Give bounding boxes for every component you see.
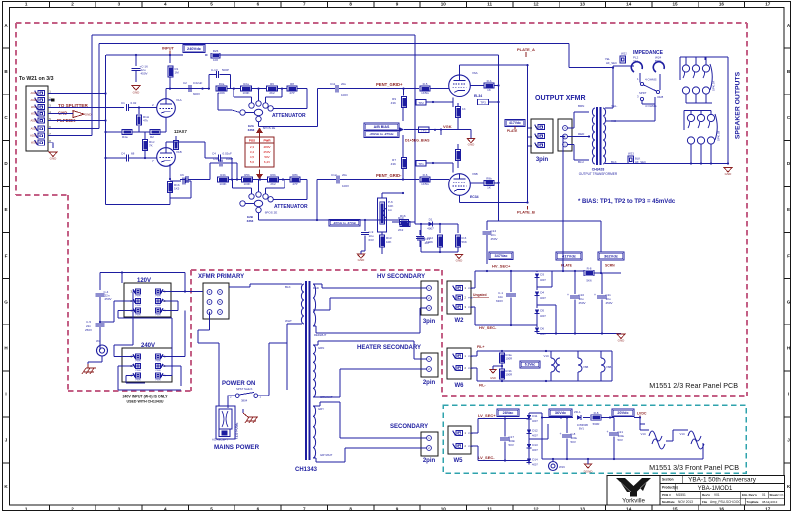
- wire 3pin to transformer center: [568, 136, 590, 138]
- svg-text:C1: C1: [121, 101, 125, 105]
- wire rail C screen drop: [322, 54, 499, 56]
- svg-text:TmpDate: TmpDate: [747, 500, 759, 504]
- svg-text:SPDT: SPDT: [639, 91, 647, 95]
- connector W6 rear pin 1: [456, 353, 463, 358]
- svg-text:250V: 250V: [263, 150, 270, 154]
- transformer T2 primary winding: [592, 108, 595, 164]
- svg-text:* BIAS: TP1, TP2 to TP3 = 45mV: * BIAS: TP1, TP2 to TP3 = 45mVdc: [578, 199, 676, 205]
- svg-text:CH3428: CH3428: [592, 168, 605, 172]
- svg-text:GRY: GRY: [318, 407, 324, 411]
- wire front bottom rail: [542, 458, 703, 460]
- wire HV REDWHT to pin3: [313, 325, 316, 327]
- svg-text:7: 7: [303, 506, 306, 511]
- svg-text:D14: D14: [532, 458, 538, 462]
- selector 120V pin R4: [155, 308, 160, 313]
- wire power switch to WHT: [258, 395, 270, 397]
- svg-text:4007: 4007: [540, 296, 546, 300]
- resistor chain row1 R6: [267, 86, 278, 91]
- IEC inlet fuse module: [216, 406, 235, 439]
- svg-text:ATTENUATOR: ATTENUATOR: [274, 204, 308, 210]
- svg-text:450V: 450V: [606, 301, 613, 305]
- connector W21 pin 4: [38, 111, 45, 116]
- ground speaker bus: [724, 168, 732, 173]
- resistor R5 grid stopper upper: [420, 86, 430, 91]
- svg-text:6POS 2E: 6POS 2E: [265, 211, 278, 215]
- svg-text:GND: GND: [50, 157, 58, 161]
- svg-text:0.02uF: 0.02uF: [193, 81, 203, 85]
- svg-text:6: 6: [257, 506, 260, 511]
- wire VGK node: [404, 129, 458, 131]
- svg-text:LVDC: LVDC: [637, 412, 647, 416]
- svg-text:R3a: R3a: [219, 82, 225, 86]
- connector W21 pin 1: [38, 90, 45, 95]
- svg-text:450V: 450V: [579, 301, 586, 305]
- wire FIL+ rail: [471, 355, 477, 357]
- svg-text:PENT_GRID+: PENT_GRID+: [376, 82, 403, 87]
- svg-text:A02G: A02G: [30, 134, 37, 138]
- svg-text:BLK: BLK: [285, 285, 291, 289]
- svg-text:SPST Switch: SPST Switch: [236, 387, 253, 391]
- connector mating pin 3: [563, 126, 568, 131]
- wire jack to switch: [639, 73, 641, 83]
- svg-text:2: 2: [71, 506, 74, 511]
- svg-text:480V: 480V: [263, 145, 270, 149]
- transformer T2 output core: [596, 107, 598, 165]
- connector W2 rear pin 3: [456, 304, 463, 309]
- speaker jacks J1-J3 row2: [682, 87, 689, 94]
- svg-text:EIA. Rev'n: EIA. Rev'n: [742, 493, 757, 497]
- svg-text:100V: 100V: [341, 93, 348, 97]
- svg-text:PWR: PWR: [155, 305, 161, 307]
- diode D3 rectifier: [536, 271, 538, 272]
- svg-text:W4: W4: [96, 339, 101, 343]
- svg-text:R-8: R-8: [587, 266, 592, 270]
- svg-text:PWR: PWR: [155, 370, 161, 372]
- connector 3pin output pin 2: [538, 133, 545, 138]
- transformer T1 LV winding: [313, 406, 316, 458]
- diode D4 rectifier: [536, 278, 538, 290]
- svg-text:A02F: A02F: [31, 127, 38, 131]
- svg-text:250V: 250V: [85, 328, 92, 332]
- svg-text:5: 5: [210, 2, 213, 7]
- svg-text:HV_SEC+: HV_SEC+: [492, 264, 511, 269]
- wire PLATE_B to BLU: [582, 161, 584, 186]
- diode D5 rectifier: [536, 296, 538, 308]
- svg-text:GND: GND: [725, 172, 733, 176]
- svg-text:C-13: C-13: [211, 68, 218, 72]
- connector W21 pin 5: [38, 118, 45, 123]
- svg-text:63V: 63V: [369, 238, 374, 242]
- svg-text:PWR: PWR: [264, 139, 272, 143]
- svg-text:10K: 10K: [386, 240, 391, 244]
- svg-text:GND: GND: [358, 258, 366, 262]
- svg-text:100: 100: [213, 58, 218, 62]
- svg-text:3: 3: [118, 2, 121, 7]
- tube V2A EL34 upper: [449, 75, 471, 97]
- wire VIO to switch: [605, 120, 619, 122]
- svg-text:1N5363B: 1N5363B: [577, 423, 588, 427]
- svg-text:560R: 560R: [593, 422, 600, 426]
- svg-text:100R: 100R: [506, 373, 513, 377]
- svg-text:V6A: V6A: [472, 71, 478, 75]
- svg-text:6.3Vac: 6.3Vac: [525, 363, 536, 367]
- capacitor C10 reservoir: [574, 271, 576, 294]
- wire LV to pins: [313, 405, 320, 407]
- svg-text:R-5: R-5: [423, 82, 428, 86]
- svg-text:HEATER SECONDARY: HEATER SECONDARY: [357, 345, 421, 351]
- svg-text:Yorkville: Yorkville: [622, 498, 645, 505]
- test point bubble on screen rail: [478, 99, 489, 105]
- wire rectifier mid tap: [537, 286, 552, 288]
- diode D6 rectifier: [536, 314, 538, 326]
- resistor R1b 47k: [138, 108, 140, 115]
- selector 120V pin R5: [155, 298, 160, 303]
- rear panel PCB dashed outline: [441, 270, 443, 396]
- svg-text:BV1: BV1: [579, 427, 584, 431]
- zener ZD-1: [577, 415, 581, 420]
- connector W6 rear pin 2: [456, 365, 463, 370]
- svg-text:100K: 100K: [218, 91, 225, 95]
- svg-text:13: 13: [580, 506, 586, 511]
- connector mating pin 1: [563, 142, 568, 147]
- tube V1A triode half: [157, 99, 176, 118]
- capacitor C2b coupling 0.02uF: [188, 85, 190, 92]
- svg-text:REDWHT: REDWHT: [314, 333, 327, 337]
- wire top bus row1: [679, 57, 681, 64]
- svg-text:W2H: W2H: [31, 141, 37, 145]
- svg-text:PWR: PWR: [135, 296, 141, 298]
- wire V2B cathode to TP1: [452, 163, 454, 173]
- heater V1 filament rear: [551, 358, 555, 372]
- arrow down to attenuator 2: [256, 174, 263, 180]
- value box 6.3Vac: [520, 361, 540, 368]
- svg-text:2 Of 4: 2 Of 4: [777, 493, 786, 497]
- svg-text:PWR: PWR: [155, 361, 161, 363]
- svg-text:2,3: 2,3: [250, 145, 255, 149]
- wire BLK secondary bottom: [605, 163, 628, 165]
- capacitor C-5 mains: [96, 323, 105, 325]
- diode D11 bridge: [527, 415, 532, 419]
- title block frame: [607, 476, 785, 506]
- wire primary WHT: [287, 323, 302, 325]
- svg-text:47P: 47P: [292, 182, 297, 186]
- svg-text:3,4: 3,4: [250, 150, 255, 154]
- wire mains top: [100, 272, 122, 274]
- svg-text:F: F: [787, 253, 790, 258]
- svg-text:Section: Section: [662, 478, 674, 482]
- svg-text:DGND: DGND: [584, 470, 594, 474]
- wire V1B plate output: [165, 142, 167, 148]
- connector W2 rear pin 1: [456, 285, 463, 290]
- svg-text:W16: W16: [559, 465, 565, 469]
- svg-text:TP3: TP3: [480, 101, 486, 105]
- resistor chain row2 R7b: [268, 177, 279, 182]
- ground chassis hatch: [82, 368, 96, 374]
- svg-text:Product(s): Product(s): [662, 486, 678, 490]
- svg-text:D1+5EG_BIAS: D1+5EG_BIAS: [405, 139, 430, 143]
- svg-text:C11: C11: [330, 82, 336, 86]
- svg-text:PWR: PWR: [468, 298, 474, 300]
- svg-text:D11: D11: [532, 414, 538, 418]
- capacitor C7 bridge over chain2: [209, 163, 211, 180]
- wire BLK bottom bus: [634, 163, 729, 165]
- svg-text:600V: 600V: [193, 92, 200, 96]
- svg-text:W6: W6: [455, 383, 465, 389]
- svg-text:2pin: 2pin: [423, 380, 436, 386]
- svg-text:14: 14: [626, 506, 632, 511]
- selector 240V pin R4: [155, 373, 160, 378]
- svg-text:ModDate: ModDate: [662, 500, 675, 504]
- wire mating pin to BRN top: [582, 100, 584, 108]
- wire V2B plate to PLATE_B: [459, 195, 461, 202]
- resistor R below pent grid lower: [402, 158, 407, 169]
- svg-text:YEL.: YEL.: [611, 104, 618, 108]
- resistor R-8 screen dropper: [584, 270, 594, 276]
- svg-text:GRYWHT: GRYWHT: [320, 453, 333, 457]
- svg-text:7: 7: [303, 2, 306, 7]
- svg-text:11: 11: [487, 2, 492, 7]
- svg-text:BRN: BRN: [655, 59, 661, 63]
- svg-text:SECONDARY: SECONDARY: [390, 424, 428, 430]
- svg-text:RED: RED: [313, 286, 319, 290]
- jack W16 front: [549, 462, 558, 471]
- svg-text:3pin: 3pin: [423, 319, 436, 325]
- svg-text:+: +: [567, 293, 569, 297]
- svg-text:16: 16: [719, 2, 725, 7]
- svg-text:28Vac: 28Vac: [503, 411, 514, 415]
- switch SPDT impedance: [640, 82, 643, 85]
- svg-text:V6B: V6B: [472, 172, 478, 176]
- wire V1B cathode: [169, 164, 171, 179]
- jack PL2 YEL: [631, 62, 642, 72]
- svg-text:E: E: [787, 207, 790, 212]
- wire LVDC node down: [634, 417, 640, 419]
- svg-text:1K5G: 1K5G: [421, 91, 429, 95]
- svg-text:J: J: [787, 438, 790, 443]
- wire center tap B+ down: [560, 136, 565, 138]
- svg-text:PLATE_B: PLATE_B: [517, 210, 535, 215]
- wire bias rail from rail A: [415, 223, 449, 225]
- test point TP2: [416, 100, 426, 106]
- svg-text:50V: 50V: [264, 155, 269, 159]
- svg-text:SPK JB: SPK JB: [717, 131, 721, 141]
- svg-text:TP3: TP3: [421, 128, 427, 132]
- svg-text:0.02uF: 0.02uF: [223, 152, 233, 156]
- ground bias filter: [357, 254, 365, 258]
- svg-text:11: 11: [487, 506, 492, 511]
- connector HV 3pin body: [421, 281, 438, 315]
- ground power switch: [245, 417, 258, 423]
- svg-text:YBA-1 50th Anniversary: YBA-1 50th Anniversary: [688, 477, 757, 484]
- svg-text:A/B BIAS: A/B BIAS: [374, 125, 390, 129]
- svg-text:GND: GND: [618, 339, 626, 343]
- svg-text:R9b: R9b: [486, 176, 492, 180]
- Yorkville logo: [616, 478, 651, 497]
- attenuator E2A rotary switch: [249, 103, 254, 108]
- svg-text:AC RECEPT: AC RECEPT: [212, 438, 228, 442]
- svg-text:50V: 50V: [571, 440, 576, 444]
- svg-text:100V: 100V: [342, 184, 349, 188]
- svg-text:VGK: VGK: [443, 124, 452, 129]
- svg-text:12: 12: [533, 2, 539, 7]
- svg-text:PWR: PWR: [155, 315, 161, 317]
- connector W21 pin 6: [38, 126, 45, 131]
- svg-text:50V: 50V: [618, 438, 623, 442]
- svg-text:+: +: [560, 432, 562, 436]
- svg-text:56K: 56K: [462, 240, 467, 244]
- value box 417Vdc mid: [556, 252, 582, 260]
- svg-text:D1: D1: [429, 218, 433, 222]
- wire B+ to 417Vdc: [562, 252, 564, 270]
- svg-text:17: 17: [765, 506, 771, 511]
- wire bridge mid tap: [529, 438, 548, 440]
- svg-text:4: 4: [164, 506, 167, 511]
- selector 240V pin L3: [135, 354, 140, 359]
- svg-text:3804: 3804: [241, 399, 248, 403]
- svg-text:WHT: WHT: [285, 319, 292, 323]
- connector 3pin output pin 3: [538, 124, 545, 129]
- wire LV_SEC- rail: [471, 445, 478, 447]
- svg-text:PLATE: PLATE: [507, 129, 517, 133]
- connector W21 pin 3: [38, 104, 45, 109]
- svg-text:A02B: A02B: [30, 119, 37, 123]
- svg-text:3: 3: [118, 506, 121, 511]
- connector mating 1-2-3 body: [558, 119, 572, 151]
- svg-text:12AX7: 12AX7: [174, 129, 187, 134]
- svg-text:9: 9: [396, 2, 399, 7]
- wire HV_SEC- rail: [471, 306, 475, 308]
- svg-text:3363: 3363: [247, 219, 254, 223]
- svg-text:D3: D3: [540, 273, 544, 277]
- svg-text:W2C: W2C: [31, 105, 37, 109]
- capacitor C6b cathode bypass: [170, 180, 181, 182]
- transformer T1 primary winding: [301, 284, 304, 324]
- svg-text:SPK JA: SPK JA: [712, 81, 716, 91]
- svg-text:20u: 20u: [341, 82, 346, 86]
- svg-text:PWR: PWR: [135, 370, 141, 372]
- svg-text:PWR: PWR: [135, 315, 141, 317]
- capacitor C-1 HV filter: [510, 271, 512, 292]
- capacitor C2 input coupling: [126, 104, 128, 111]
- svg-text:PWR: PWR: [155, 380, 161, 382]
- wire heater to pins: [313, 344, 318, 346]
- wire right bus down: [727, 57, 729, 164]
- wire rail B feedback run to jack: [568, 44, 570, 68]
- connector 3pin output body: [531, 119, 553, 153]
- wire HV_SEC+ rail: [471, 287, 475, 289]
- svg-text:17: 17: [765, 2, 771, 7]
- svg-text:HF_SEC: HF_SEC: [606, 61, 617, 65]
- svg-text:NOV 2013: NOV 2013: [678, 500, 693, 504]
- svg-text:FIL+: FIL+: [477, 345, 485, 349]
- svg-text:POS: POS: [249, 139, 255, 143]
- svg-text:SPEAKER OUTPUTS: SPEAKER OUTPUTS: [735, 71, 742, 139]
- resistor R13 bias divider2: [449, 223, 458, 225]
- svg-text:4007: 4007: [532, 434, 538, 438]
- wire attenuator 2 output long run: [258, 213, 260, 220]
- wire group2 buses: [684, 110, 711, 112]
- transformer T1 heater winding: [313, 345, 316, 397]
- svg-text:4007: 4007: [532, 419, 538, 423]
- diode D1 bias: [428, 222, 432, 227]
- svg-text:HV SECONDARY: HV SECONDARY: [377, 274, 425, 280]
- svg-text:PWR: PWR: [155, 296, 161, 298]
- svg-text:417Vdc: 417Vdc: [509, 121, 521, 125]
- svg-text:2: 2: [71, 2, 74, 7]
- wire screen rail: [600, 221, 602, 252]
- svg-text:FIL-: FIL-: [479, 384, 486, 388]
- capacitor C12 pent grid- coupling: [336, 176, 338, 184]
- svg-text:1M: 1M: [175, 71, 180, 75]
- svg-text:250V: 250V: [105, 297, 112, 301]
- wire switch lower throw: [641, 101, 643, 104]
- svg-text:File: File: [702, 500, 707, 504]
- value box 240Vdc: [183, 45, 205, 53]
- wire chain drops to attenuator 1: [233, 89, 235, 97]
- connector W6 rear body: [447, 348, 471, 379]
- wire HV mid to pin2: [313, 309, 330, 311]
- A/B BIAS value box: [364, 123, 399, 131]
- wire row1 to row2 bus: [685, 98, 687, 103]
- connector W21 pin 2: [38, 97, 45, 102]
- svg-text:20u: 20u: [342, 173, 347, 177]
- attenuator E2B rotary switch: [249, 194, 254, 199]
- arrow up to attenuator 1: [256, 128, 263, 134]
- connector W22 YEL tag: [620, 56, 626, 63]
- svg-text:C2: C2: [183, 81, 187, 85]
- svg-text:1K5: 1K5: [174, 187, 180, 191]
- svg-text:500P: 500P: [222, 68, 229, 72]
- diode D13 bridge: [527, 444, 532, 448]
- svg-text:240V INPUT (W-6) IS ONLY: 240V INPUT (W-6) IS ONLY: [122, 395, 168, 399]
- svg-text:BLU: BLU: [578, 160, 584, 164]
- selector 240V pin L1: [135, 373, 140, 378]
- svg-text:+: +: [594, 293, 596, 297]
- svg-text:M1551 2/3 Rear Panel PCB: M1551 2/3 Rear Panel PCB: [649, 381, 738, 390]
- resistor R6a screen upper: [484, 83, 494, 88]
- wire selector to primary connector: [185, 291, 203, 293]
- svg-text:4 OHMS: 4 OHMS: [645, 104, 657, 108]
- svg-text:R-b: R-b: [487, 79, 492, 83]
- svg-text:8: 8: [349, 506, 352, 511]
- svg-text:4007: 4007: [540, 314, 546, 318]
- value box -22Vdc to -27Vdc: [329, 220, 360, 227]
- svg-text:PWR: PWR: [135, 305, 141, 307]
- resistor R6b screen lower: [484, 180, 494, 185]
- selector 120V pin L1: [135, 308, 140, 313]
- svg-text:V6B: V6B: [583, 365, 588, 369]
- svg-text:1K: 1K: [487, 88, 491, 92]
- svg-text:5,6: 5,6: [250, 160, 255, 164]
- wire attenuator2 wiper vertical to C12: [316, 180, 318, 221]
- wire primary BLK: [229, 286, 250, 288]
- wire grid return bus x105.5: [105, 55, 107, 205]
- resistor R10 bias feed: [400, 222, 410, 227]
- svg-text:E: E: [4, 207, 7, 212]
- svg-text:TP1: TP1: [418, 162, 424, 166]
- svg-text:R-6: R-6: [423, 173, 428, 177]
- selector 120V pin L2: [135, 298, 140, 303]
- trimpot P-6 bias adjust: [378, 198, 387, 232]
- svg-text:I: I: [5, 392, 6, 397]
- capacitor C21 LV filter: [613, 418, 615, 432]
- svg-text:GND: GND: [456, 258, 464, 262]
- ground below connector W21: [49, 152, 57, 157]
- svg-text:V1C: V1C: [680, 432, 685, 436]
- speaker jacks switching contacts row1: [683, 72, 685, 78]
- svg-text:GRN: GRN: [318, 346, 324, 350]
- wire B+ top rail rear: [537, 270, 566, 272]
